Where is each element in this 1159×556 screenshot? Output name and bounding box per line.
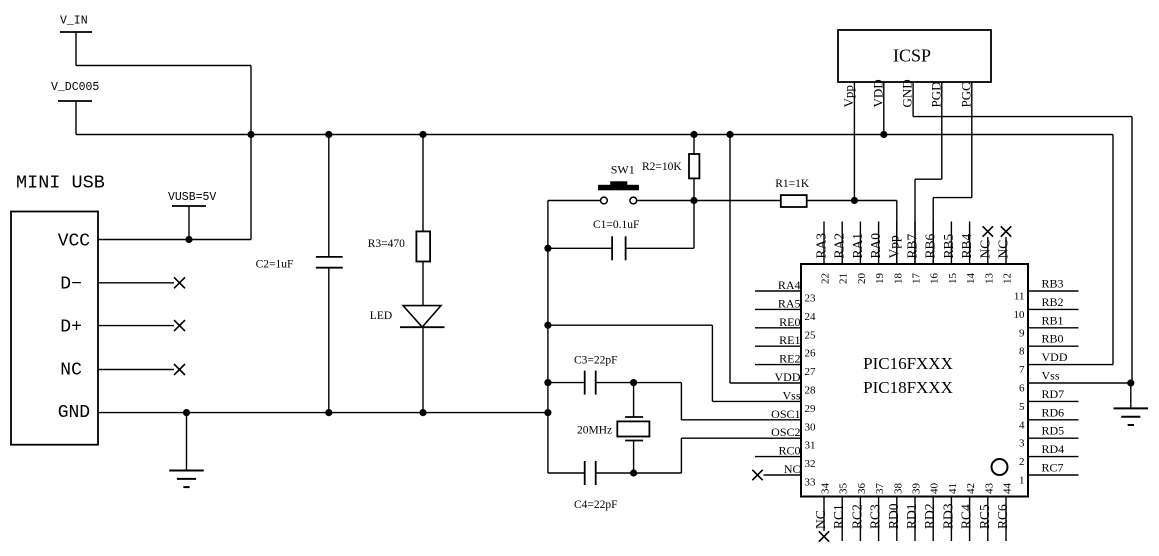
wire Vss pin29 to left bus: [548, 324, 713, 326]
wire C2 bottom: [328, 268, 330, 413]
svg-text:R1=1K: R1=1K: [775, 178, 810, 190]
svg-text:33: 33: [805, 477, 817, 489]
wire VDD pin28 riser: [729, 135, 731, 384]
svg-text:VDD: VDD: [775, 370, 801, 384]
svg-text:12: 12: [1002, 273, 1014, 284]
svg-text:RC1: RC1: [831, 504, 846, 529]
svg-text:RB3: RB3: [1042, 277, 1064, 291]
svg-text:RB4: RB4: [959, 233, 974, 258]
pin 21 RA2 (top): [841, 222, 843, 265]
svg-text:41: 41: [947, 483, 959, 494]
wire V_IN to rail corner: [76, 65, 251, 67]
svg-text:GND: GND: [900, 79, 915, 107]
node LED bottom junction: [419, 409, 426, 416]
wire C3 left: [548, 382, 585, 384]
svg-text:VCC: VCC: [58, 231, 91, 251]
pin 1 RC7 (right): [1028, 474, 1079, 476]
svg-text:44: 44: [1002, 483, 1014, 495]
wire SW1 right to R1: [637, 200, 781, 202]
svg-text:40: 40: [929, 483, 941, 495]
wire ICSP GND: [912, 82, 914, 117]
pin 41 RD3 (bottom): [950, 497, 952, 542]
wire D+ stub: [98, 325, 174, 327]
node ICSP VDD rail junction: [880, 131, 887, 138]
node rail-VIN junction: [247, 131, 254, 138]
svg-text:22: 22: [820, 273, 832, 284]
svg-text:C2=1uF: C2=1uF: [256, 259, 294, 271]
svg-text:RB0: RB0: [1042, 332, 1064, 346]
ground symbol left: [186, 413, 188, 470]
pin 7 VDD (right): [1028, 364, 1113, 366]
svg-text:SW1: SW1: [611, 163, 635, 177]
wire D- stub: [98, 282, 174, 284]
svg-text:MINI USB: MINI USB: [16, 173, 105, 194]
wire C4 left: [548, 472, 585, 474]
svg-text:RB6: RB6: [923, 233, 938, 258]
pin 34 NC (bottom): [823, 497, 825, 532]
wire VDD pin7 riser to rail: [1112, 135, 1114, 365]
svg-text:R3=470: R3=470: [368, 238, 405, 250]
svg-text:RB1: RB1: [1042, 313, 1064, 327]
svg-text:PGC: PGC: [958, 82, 973, 107]
wire LED bottom: [422, 327, 424, 412]
capacitor C4: [584, 461, 586, 485]
svg-text:RA3: RA3: [814, 233, 829, 259]
svg-text:RD2: RD2: [922, 503, 937, 529]
pin 32 RC0 (left): [755, 456, 801, 458]
svg-text:39: 39: [911, 483, 923, 495]
svg-text:25: 25: [805, 329, 817, 341]
svg-text:11: 11: [1014, 291, 1025, 303]
svg-text:RD4: RD4: [1042, 442, 1065, 456]
node Vpp/ICSP junction: [851, 197, 858, 204]
svg-text:RA4: RA4: [778, 278, 801, 292]
wire crystal top node to OSC1 jog: [634, 382, 682, 384]
node Vss wire left bus junction: [544, 322, 551, 329]
pin 24 RA5 (left): [755, 308, 801, 310]
node VDD28 rail junction: [726, 131, 733, 138]
node C2 rail junction: [325, 131, 332, 138]
pin 19 RA0 (top): [878, 222, 880, 265]
wire C1 left: [548, 247, 612, 249]
wire bottom GND rail: [98, 412, 548, 414]
wire ICSP Vpp: [853, 82, 855, 201]
wire R3 to LED: [422, 262, 424, 306]
pin 14 RB4 (top): [969, 222, 971, 265]
svg-text:5: 5: [1019, 401, 1025, 413]
svg-text:24: 24: [805, 311, 817, 323]
pin 20 RA1 (top): [859, 222, 861, 265]
svg-text:RD1: RD1: [904, 503, 919, 529]
svg-text:Vpp: Vpp: [886, 235, 901, 258]
capacitor C1: [611, 236, 613, 260]
pin 44 RC6 (bottom): [1005, 497, 1007, 542]
svg-text:RC7: RC7: [1042, 461, 1064, 475]
svg-text:D−: D−: [60, 275, 82, 295]
wire C1 right: [626, 247, 694, 249]
svg-text:NC: NC: [813, 510, 828, 529]
wire R2 top: [693, 135, 695, 155]
pin 4 RD6 (right): [1028, 419, 1079, 421]
pin 23 RA4 (left): [755, 290, 801, 292]
pin 36 RC2 (bottom): [859, 497, 861, 542]
wire SW1 left: [548, 200, 601, 202]
wire ICSP PGD to RB7: [941, 82, 943, 179]
svg-text:RC2: RC2: [849, 504, 864, 529]
svg-text:D+: D+: [60, 318, 82, 338]
svg-text:NC: NC: [60, 361, 82, 381]
svg-text:RC5: RC5: [977, 504, 992, 529]
svg-text:13: 13: [983, 273, 995, 285]
node C1 left junction: [544, 245, 551, 252]
svg-text:ICSP: ICSP: [893, 46, 931, 66]
svg-text:RA2: RA2: [832, 233, 847, 259]
svg-text:RD7: RD7: [1042, 387, 1065, 401]
svg-text:17: 17: [911, 273, 923, 285]
svg-text:NC: NC: [977, 240, 992, 259]
pin 22 RA3 (top): [823, 222, 825, 265]
node VUSB-VCC junction: [185, 236, 192, 243]
svg-text:16: 16: [929, 273, 941, 285]
crystal 20MHz: [633, 383, 635, 417]
node R2 rail junction: [690, 131, 697, 138]
pin1 indicator circle: [992, 459, 1008, 475]
pin 13 NC (top): [987, 237, 989, 264]
svg-text:VDD: VDD: [870, 79, 885, 107]
diode LED: [403, 306, 441, 327]
pin 18 Vpp (top): [896, 222, 898, 265]
svg-text:3: 3: [1019, 438, 1025, 450]
capacitor C3: [584, 371, 586, 395]
connector ICSP box: [838, 30, 991, 82]
pin 8 RB0 (right): [1028, 345, 1079, 347]
svg-text:Vss: Vss: [782, 388, 800, 402]
svg-text:C1=0.1uF: C1=0.1uF: [593, 219, 639, 231]
svg-text:RE1: RE1: [779, 333, 800, 347]
wire R1 to Vpp pin: [807, 200, 897, 202]
svg-text:32: 32: [805, 458, 816, 470]
pin 3 RD5 (right): [1028, 437, 1079, 439]
node R3 rail junction: [419, 131, 426, 138]
wire NC stub: [98, 369, 174, 371]
svg-text:38: 38: [892, 483, 904, 495]
wire ICSP VDD: [883, 82, 885, 135]
pin 2 RD4 (right): [1028, 456, 1079, 458]
svg-text:R2=10K: R2=10K: [642, 161, 682, 173]
svg-text:RE2: RE2: [779, 352, 800, 366]
pin 35 RC1 (bottom): [841, 497, 843, 542]
connector MINI USB box: [11, 212, 98, 445]
pin 10 RB2 (right): [1028, 308, 1079, 310]
svg-text:15: 15: [947, 273, 959, 285]
pin 38 RD0 (bottom): [896, 497, 898, 542]
svg-text:Vss: Vss: [1042, 369, 1060, 383]
node Vss6 ground junction: [1127, 379, 1134, 386]
svg-text:RD3: RD3: [940, 503, 955, 529]
node C2 bottom junction: [325, 409, 332, 416]
svg-text:7: 7: [1019, 364, 1025, 376]
svg-text:21: 21: [838, 273, 850, 284]
svg-text:OSC1: OSC1: [771, 407, 800, 421]
pin 9 RB1 (right): [1028, 327, 1079, 329]
svg-text:C4=22pF: C4=22pF: [574, 499, 618, 511]
svg-text:RB5: RB5: [941, 233, 956, 258]
svg-text:23: 23: [805, 293, 817, 305]
svg-text:RE0: RE0: [779, 315, 800, 329]
pin 42 RC4 (bottom): [969, 497, 971, 542]
svg-text:1: 1: [1019, 475, 1025, 487]
wire C4 right: [596, 472, 634, 474]
ground symbol right: [1130, 383, 1132, 408]
pin 43 RC5 (bottom): [987, 497, 989, 542]
pin 27 RE2 (left): [755, 364, 801, 366]
resistor R1: [781, 195, 807, 207]
wire ICSP PGC to RB6: [971, 82, 973, 198]
svg-text:43: 43: [983, 483, 995, 495]
svg-text:20MHz: 20MHz: [577, 425, 612, 437]
svg-text:10: 10: [1014, 309, 1026, 321]
pin 17 RB7 (top): [914, 222, 916, 265]
pin 40 RD2 (bottom): [932, 497, 934, 542]
svg-text:VDD: VDD: [1042, 350, 1068, 364]
svg-text:RB7: RB7: [905, 233, 920, 258]
wire R2 bottom: [693, 178, 695, 200]
node SW1/R2/C1 junction: [690, 197, 697, 204]
svg-text:RC6: RC6: [995, 504, 1010, 529]
svg-text:PGD: PGD: [928, 81, 943, 107]
no-connect X on D+: [174, 320, 185, 331]
IC PIC16FXXX / PIC18FXXX body: [801, 264, 1028, 497]
svg-text:V_IN: V_IN: [60, 15, 88, 28]
pin 26 RE1 (left): [755, 345, 801, 347]
pin 16 RB6 (top): [932, 222, 934, 265]
wire crystal bottom node to OSC2 jog: [634, 472, 682, 474]
svg-text:36: 36: [856, 483, 868, 495]
svg-text:34: 34: [820, 483, 832, 495]
wire VCC row: [98, 239, 251, 241]
svg-text:37: 37: [874, 483, 886, 495]
node USB GND junction: [183, 409, 190, 416]
svg-text:19: 19: [874, 273, 886, 285]
svg-text:PIC18FXXX: PIC18FXXX: [863, 378, 953, 397]
wire top VCC rail: [76, 134, 1113, 136]
pin 25 RE0 (left): [755, 327, 801, 329]
pin 12 NC (top): [1005, 237, 1007, 264]
svg-text:42: 42: [965, 483, 977, 494]
wire C2 top: [328, 135, 330, 257]
wire C3 right: [596, 382, 634, 384]
svg-text:RC0: RC0: [778, 444, 800, 458]
svg-text:RA0: RA0: [868, 233, 883, 259]
svg-text:NC: NC: [996, 240, 1011, 259]
svg-text:26: 26: [805, 348, 817, 360]
svg-text:RD0: RD0: [886, 503, 901, 529]
svg-text:Vpp: Vpp: [841, 85, 856, 107]
wire R3 top: [422, 135, 424, 232]
svg-text:LED: LED: [370, 310, 392, 322]
resistor R2: [689, 154, 699, 178]
pin 5 RD7 (right): [1028, 400, 1079, 402]
svg-text:RC4: RC4: [959, 504, 974, 529]
svg-text:C3=22pF: C3=22pF: [574, 355, 618, 367]
svg-text:9: 9: [1019, 327, 1025, 339]
no-connect X on NC: [174, 364, 185, 375]
svg-text:8: 8: [1019, 346, 1025, 358]
node crystal bottom junction: [630, 469, 637, 476]
svg-text:RA1: RA1: [850, 233, 865, 259]
svg-text:NC: NC: [784, 462, 801, 476]
no-connect X on D-: [174, 277, 185, 288]
svg-text:2: 2: [1019, 456, 1025, 468]
svg-text:RB2: RB2: [1042, 295, 1064, 309]
svg-text:4: 4: [1019, 419, 1025, 431]
svg-text:31: 31: [805, 440, 816, 452]
svg-text:RD6: RD6: [1042, 405, 1065, 419]
svg-text:RC3: RC3: [868, 504, 883, 529]
svg-text:14: 14: [965, 273, 977, 285]
pin 15 RB5 (top): [950, 222, 952, 265]
svg-text:VUSB=5V: VUSB=5V: [168, 191, 216, 204]
svg-text:28: 28: [805, 385, 817, 397]
pin 6 Vss (right): [1028, 382, 1131, 384]
wire left bus vertical: [547, 201, 549, 474]
pin 39 RD1 (bottom): [914, 497, 916, 542]
pin 11 RB3 (right): [1028, 290, 1079, 292]
svg-text:35: 35: [838, 483, 850, 495]
svg-text:29: 29: [805, 403, 817, 415]
resistor R3: [416, 231, 430, 261]
svg-text:27: 27: [805, 366, 817, 378]
svg-text:18: 18: [892, 273, 904, 285]
svg-text:RA5: RA5: [778, 296, 801, 310]
svg-text:30: 30: [805, 421, 817, 433]
svg-text:20: 20: [856, 273, 868, 285]
node left bus / bottom rail junction: [544, 409, 551, 416]
svg-text:PIC16FXXX: PIC16FXXX: [863, 354, 953, 373]
svg-text:RD5: RD5: [1042, 424, 1065, 438]
node crystal top junction: [630, 379, 637, 386]
svg-text:GND: GND: [58, 403, 90, 423]
pin 37 RC3 (bottom): [878, 497, 880, 542]
svg-text:V_DC005: V_DC005: [51, 81, 99, 94]
svg-text:6: 6: [1019, 383, 1025, 395]
pin 33 NC (left): [764, 474, 802, 476]
switch SW1 pushbutton: [610, 181, 627, 185]
svg-text:OSC2: OSC2: [771, 425, 800, 439]
wire VCC riser to USB: [250, 135, 252, 240]
capacitor C2: [316, 256, 343, 258]
node C3 left junction: [544, 379, 551, 386]
